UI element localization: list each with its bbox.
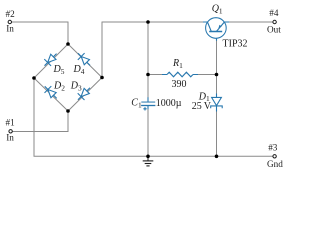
svg-text:TIP32: TIP32 — [223, 38, 248, 49]
zener diode D1 — [211, 94, 223, 112]
value 390 — [172, 79, 187, 90]
wire bridge bottom-right side — [68, 78, 102, 112]
svg-text:R1: R1 — [172, 58, 183, 70]
svg-text:Out: Out — [267, 24, 281, 34]
label D1 — [198, 91, 210, 103]
svg-text:390: 390 — [172, 79, 187, 90]
node bridge right — [100, 76, 104, 80]
wire filter column upper — [147, 22, 149, 98]
value 25V — [192, 101, 212, 112]
value 1000u — [156, 98, 182, 109]
wire zener lower lead — [216, 111, 218, 156]
svg-text:D4: D4 — [73, 64, 85, 76]
resistor R1 — [162, 72, 198, 77]
label D5 — [53, 64, 65, 76]
svg-text:#2: #2 — [6, 9, 16, 19]
svg-text:D3: D3 — [70, 81, 82, 93]
wire top rail — [102, 21, 203, 23]
svg-text:D5: D5 — [53, 64, 65, 76]
wire zener upper lead — [216, 75, 218, 94]
terminal #3 Gnd — [267, 143, 283, 169]
wire bridge left-bottom side — [34, 78, 68, 111]
svg-text:Gnd: Gnd — [267, 159, 283, 169]
label C1 — [131, 98, 142, 110]
wire top node drop — [67, 22, 69, 44]
label Q1 — [212, 4, 223, 16]
wire resistor right lead — [198, 74, 217, 76]
diode D3 — [78, 88, 90, 100]
label D2 — [53, 81, 65, 93]
node resistor right — [215, 73, 219, 77]
svg-text:#3: #3 — [268, 143, 278, 153]
svg-text:D2: D2 — [53, 81, 65, 93]
node top rail junction — [146, 20, 150, 24]
label D4 — [73, 64, 85, 76]
svg-text:#4: #4 — [269, 8, 279, 18]
wire #1 input lead — [12, 111, 68, 132]
diode D4 — [78, 53, 90, 65]
capacitor C1 — [141, 97, 155, 110]
node bridge top — [66, 42, 70, 46]
wire #2 input lead — [11, 21, 68, 23]
wire resistor left lead — [148, 74, 162, 76]
node bridge bottom — [66, 109, 70, 113]
wire bridge left-top side — [34, 44, 68, 78]
node ground junction — [146, 155, 150, 159]
node zener bottom — [215, 155, 219, 159]
node bridge left — [32, 76, 36, 80]
value TIP32 — [223, 38, 248, 49]
svg-text:#1: #1 — [6, 118, 16, 128]
svg-text:Q1: Q1 — [212, 4, 223, 16]
terminal #2 In — [6, 9, 16, 34]
terminal #1 In — [6, 118, 16, 143]
diode D5 — [44, 54, 56, 66]
svg-text:In: In — [6, 24, 14, 34]
label D3 — [70, 81, 82, 93]
wire bridge top-right side — [68, 44, 102, 78]
svg-text:1000µ: 1000µ — [156, 98, 182, 109]
ground symbol — [143, 156, 154, 166]
svg-text:In: In — [6, 133, 14, 143]
diode D2 — [45, 86, 57, 98]
svg-text:25 V: 25 V — [192, 101, 212, 112]
terminal #4 Out — [267, 8, 281, 34]
wire transistor base lead — [216, 41, 218, 75]
svg-text:C1: C1 — [131, 98, 142, 110]
wire right node riser to top rail — [101, 22, 103, 78]
node resistor left — [146, 73, 150, 77]
wire filter column lower — [147, 109, 149, 156]
transistor Q1 — [203, 18, 229, 41]
wire ground rail — [34, 78, 273, 156]
label R1 — [172, 58, 183, 70]
wire transistor to out terminal — [229, 21, 273, 23]
